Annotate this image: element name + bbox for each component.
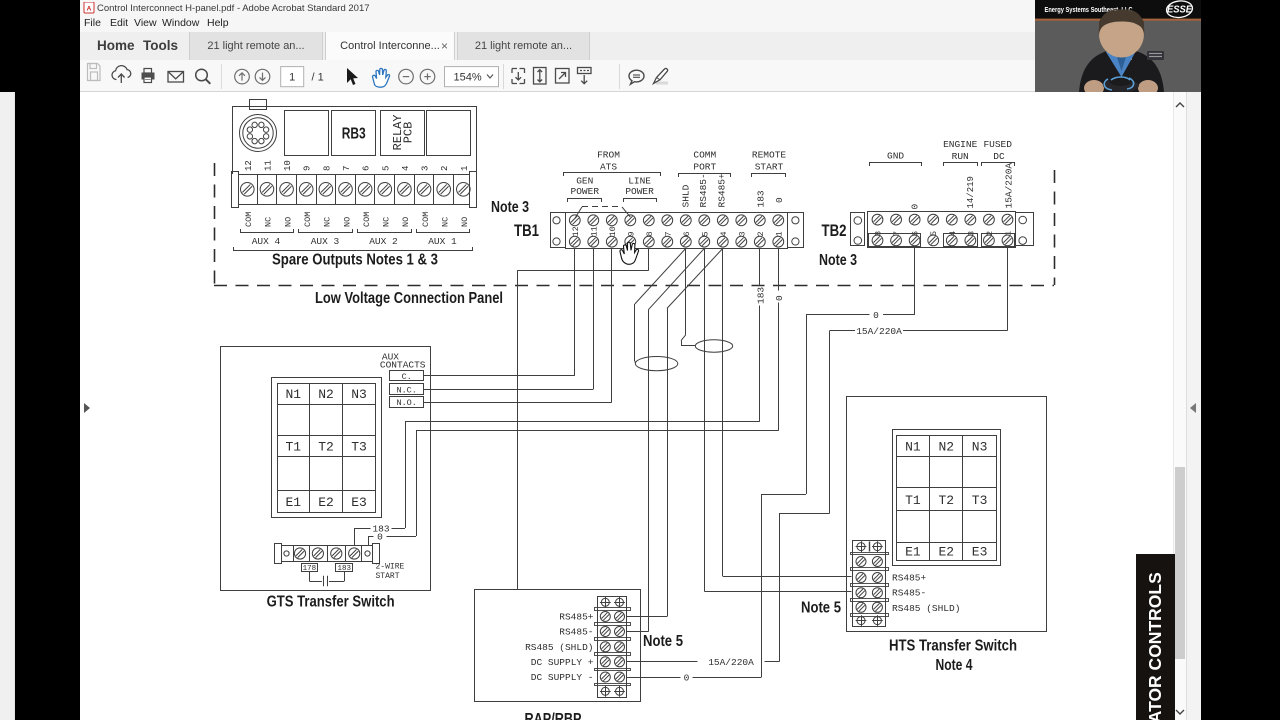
svg-text:2: 2 (756, 231, 766, 236)
svg-text:E3: E3 (972, 545, 988, 560)
svg-text:N2: N2 (938, 439, 954, 454)
svg-text:TB2: TB2 (822, 222, 847, 240)
svg-text:COM: COM (244, 212, 254, 227)
svg-text:N.O.: N.O. (396, 398, 416, 408)
svg-text:GENERATOR CONTROLS: GENERATOR CONTROLS (1145, 572, 1165, 720)
svg-text:0: 0 (774, 197, 785, 203)
svg-text:AUX 2: AUX 2 (369, 236, 398, 247)
svg-text:GTS Transfer Switch: GTS Transfer Switch (267, 594, 395, 611)
svg-text:5: 5 (381, 166, 391, 171)
svg-text:LINE: LINE (628, 176, 651, 187)
svg-text:10: 10 (283, 160, 293, 171)
svg-text:T1: T1 (285, 439, 301, 454)
svg-text:RS485-: RS485- (892, 588, 926, 599)
svg-text:T3: T3 (351, 439, 367, 454)
svg-text:COM: COM (362, 212, 372, 227)
svg-text:POWER: POWER (625, 186, 654, 197)
svg-text:AUX 4: AUX 4 (252, 236, 281, 247)
svg-text:NO: NO (342, 217, 352, 227)
svg-text:10: 10 (608, 226, 618, 236)
svg-text:2: 2 (440, 166, 450, 171)
svg-text:FUSED: FUSED (983, 139, 1012, 150)
svg-text:9: 9 (626, 231, 636, 236)
svg-text:12: 12 (571, 226, 581, 236)
svg-text:Note 3: Note 3 (819, 252, 857, 269)
svg-text:DC SUPPLY -: DC SUPPLY - (531, 672, 594, 683)
svg-text:N1: N1 (905, 439, 921, 454)
svg-text:11: 11 (589, 226, 599, 236)
svg-text:ENGINE: ENGINE (943, 139, 978, 150)
svg-text:9: 9 (303, 166, 313, 171)
svg-text:PCB: PCB (402, 122, 416, 144)
svg-text:RUN: RUN (952, 151, 969, 162)
svg-text:RS485-: RS485- (559, 627, 593, 638)
svg-text:RS485 (SHLD): RS485 (SHLD) (892, 603, 960, 614)
svg-text:FROM: FROM (597, 150, 620, 161)
svg-text:N2: N2 (318, 387, 334, 402)
svg-text:HTS Transfer Switch: HTS Transfer Switch (889, 638, 1017, 655)
svg-text:GEN: GEN (576, 176, 593, 187)
svg-text:START: START (755, 162, 784, 173)
svg-text:1: 1 (774, 231, 784, 236)
svg-text:AUX 1: AUX 1 (428, 236, 457, 247)
svg-text:Spare Outputs Notes 1 & 3: Spare Outputs Notes 1 & 3 (272, 252, 438, 269)
svg-text:Note 4: Note 4 (936, 657, 973, 674)
svg-text:2-WIRE: 2-WIRE (376, 563, 405, 572)
svg-text:11: 11 (263, 160, 273, 171)
svg-text:PORT: PORT (693, 162, 716, 173)
svg-text:E1: E1 (905, 545, 921, 560)
svg-text:0: 0 (873, 310, 879, 321)
svg-text:AUX 3: AUX 3 (311, 236, 340, 247)
svg-text:RB3: RB3 (342, 126, 366, 143)
svg-text:T3: T3 (972, 493, 988, 508)
svg-text:RS485+: RS485+ (716, 173, 727, 208)
svg-text:3: 3 (737, 231, 747, 236)
svg-text:E1: E1 (285, 495, 301, 510)
svg-text:8: 8 (645, 231, 655, 236)
svg-text:RS485 (SHLD): RS485 (SHLD) (525, 642, 593, 653)
svg-text:N.C.: N.C. (396, 385, 416, 395)
svg-text:154%: 154% (453, 71, 481, 83)
svg-text:T1: T1 (905, 493, 921, 508)
svg-text:NC: NC (323, 217, 333, 227)
svg-text:/ 1: / 1 (311, 72, 323, 84)
svg-text:0: 0 (684, 672, 690, 683)
svg-text:7: 7 (663, 231, 673, 236)
svg-text:COM: COM (421, 212, 431, 227)
svg-text:T2: T2 (938, 493, 954, 508)
svg-text:E2: E2 (938, 545, 954, 560)
svg-text:0: 0 (910, 204, 921, 210)
svg-text:TB1: TB1 (514, 222, 539, 240)
svg-text:6: 6 (362, 166, 372, 171)
svg-text:RS485+: RS485+ (892, 573, 927, 584)
svg-text:REMOTE: REMOTE (752, 150, 787, 161)
svg-text:Note 5: Note 5 (801, 600, 841, 617)
svg-text:1: 1 (289, 72, 295, 84)
svg-text:GND: GND (887, 151, 904, 162)
svg-text:START: START (376, 572, 400, 581)
svg-text:C.: C. (402, 372, 412, 382)
svg-text:4: 4 (719, 231, 729, 236)
svg-text:SHLD: SHLD (681, 184, 692, 207)
svg-text:N1: N1 (285, 387, 301, 402)
svg-text:183: 183 (755, 190, 766, 207)
svg-text:N3: N3 (972, 439, 988, 454)
svg-text:15A/220A: 15A/220A (856, 326, 902, 337)
svg-text:RS485-: RS485- (698, 173, 709, 207)
svg-text:ATS: ATS (600, 162, 617, 173)
svg-text:N3: N3 (351, 387, 367, 402)
svg-text:15A/220A: 15A/220A (708, 657, 754, 668)
svg-text:5: 5 (700, 231, 710, 236)
svg-text:NC: NC (441, 217, 451, 227)
svg-text:4: 4 (401, 166, 411, 171)
svg-text:DC: DC (993, 151, 1005, 162)
svg-text:0: 0 (774, 295, 785, 301)
svg-text:T2: T2 (318, 439, 334, 454)
svg-text:1: 1 (460, 166, 470, 171)
svg-text:15A/220A: 15A/220A (1004, 163, 1015, 209)
svg-text:E2: E2 (318, 495, 334, 510)
svg-text:6: 6 (682, 231, 692, 236)
svg-text:RS485+: RS485+ (559, 612, 594, 623)
svg-text:Note 5: Note 5 (643, 633, 683, 650)
svg-text:12: 12 (244, 160, 254, 171)
svg-text:COM: COM (303, 212, 313, 227)
svg-text:NC: NC (264, 217, 274, 227)
svg-text:0: 0 (377, 531, 383, 542)
svg-text:CONTACTS: CONTACTS (380, 360, 426, 371)
svg-text:POWER: POWER (571, 186, 600, 197)
svg-text:183: 183 (755, 287, 766, 304)
svg-text:7: 7 (342, 166, 352, 171)
svg-text:8: 8 (322, 166, 332, 171)
svg-text:NO: NO (401, 217, 411, 227)
svg-text:NO: NO (283, 217, 293, 227)
svg-text:14/219: 14/219 (966, 176, 976, 208)
svg-text:E3: E3 (351, 495, 367, 510)
svg-text:RAP/RBP: RAP/RBP (525, 711, 582, 720)
svg-text:3: 3 (421, 166, 431, 171)
svg-text:NC: NC (382, 217, 392, 227)
svg-text:5: 5 (929, 231, 939, 236)
svg-text:Low Voltage Connection Panel: Low Voltage Connection Panel (315, 290, 503, 307)
svg-text:DC SUPPLY +: DC SUPPLY + (531, 657, 594, 668)
svg-text:NO: NO (460, 217, 470, 227)
svg-text:Note 3: Note 3 (491, 199, 529, 216)
svg-text:COMM: COMM (693, 150, 716, 161)
